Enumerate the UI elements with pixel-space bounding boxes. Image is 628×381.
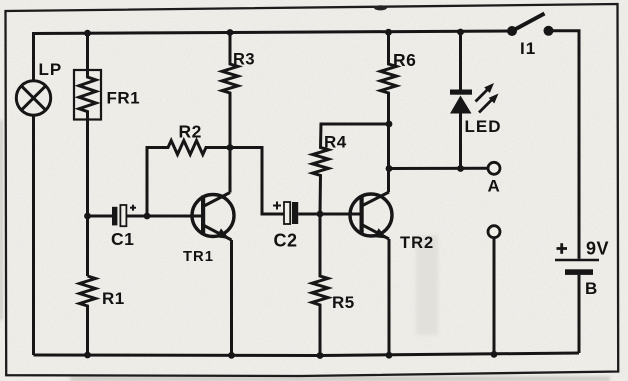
svg-text:TR2: TR2 [400,234,434,252]
svg-text:LED: LED [465,117,502,136]
svg-text:I1: I1 [520,39,536,58]
svg-text:B: B [585,279,597,298]
svg-text:9V: 9V [586,239,609,259]
svg-text:TR1: TR1 [183,249,214,265]
svg-text:FR1: FR1 [107,89,141,108]
svg-text:R6: R6 [393,50,416,70]
svg-text:LP: LP [39,60,63,79]
svg-text:R4: R4 [324,133,347,152]
svg-text:C2: C2 [274,231,298,251]
svg-text:R3: R3 [233,51,255,69]
svg-text:A: A [488,177,500,196]
svg-text:R1: R1 [102,289,125,308]
svg-text:C1: C1 [111,229,134,249]
svg-text:R5: R5 [332,293,355,312]
svg-text:R2: R2 [179,122,202,142]
